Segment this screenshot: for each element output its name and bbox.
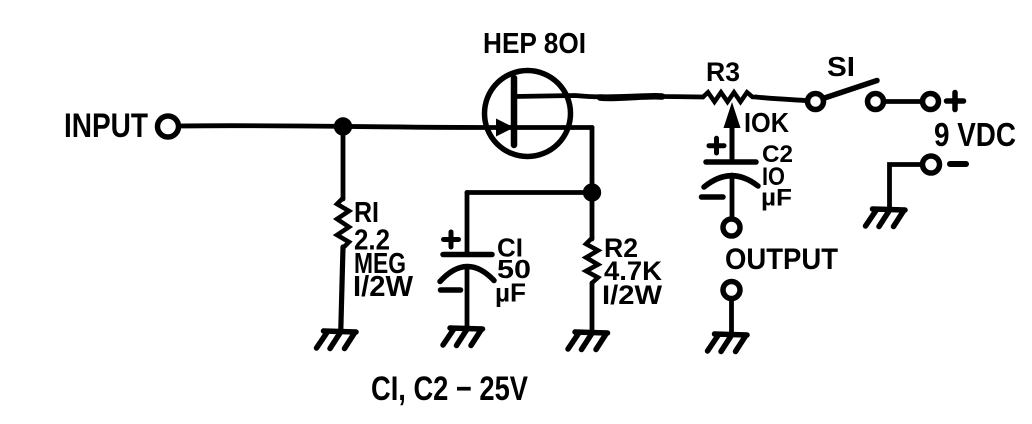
svg-text:R3: R3 — [706, 57, 740, 87]
svg-text:INPUT: INPUT — [64, 107, 148, 145]
svg-text:OUTPUT: OUTPUT — [725, 243, 838, 276]
svg-text:I/2W: I/2W — [602, 280, 662, 310]
svg-text:µF: µF — [761, 185, 792, 212]
svg-text:CI, C2 − 25V: CI, C2 − 25V — [371, 370, 528, 408]
svg-text:I/2W: I/2W — [353, 271, 414, 303]
svg-text:9 VDC: 9 VDC — [934, 116, 1016, 153]
svg-text:IOK: IOK — [744, 107, 789, 138]
svg-text:HEP 8OI: HEP 8OI — [483, 28, 586, 60]
svg-text:µF: µF — [495, 278, 526, 308]
svg-text:SI: SI — [827, 51, 855, 82]
